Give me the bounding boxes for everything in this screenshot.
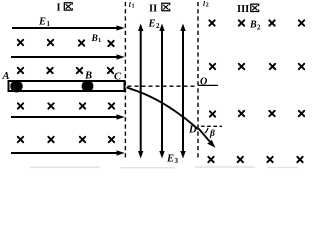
svg-text:C: C xyxy=(114,72,122,83)
svg-text:A: A xyxy=(2,71,10,82)
svg-text:II: II xyxy=(149,3,157,14)
svg-text:B: B xyxy=(249,19,257,30)
svg-text:1: 1 xyxy=(47,20,51,28)
svg-text:1: 1 xyxy=(132,4,135,10)
svg-text:III: III xyxy=(237,4,249,15)
svg-text:β: β xyxy=(209,129,215,139)
svg-text:E: E xyxy=(38,17,46,28)
svg-text:E: E xyxy=(148,18,156,29)
svg-text:B: B xyxy=(91,34,98,44)
svg-text:3: 3 xyxy=(175,157,179,165)
svg-text:O: O xyxy=(200,77,207,88)
svg-text:1: 1 xyxy=(98,37,101,44)
svg-text:E: E xyxy=(166,154,174,165)
svg-text:D: D xyxy=(188,125,197,136)
svg-text:2: 2 xyxy=(156,22,160,30)
svg-text:2: 2 xyxy=(206,3,209,9)
svg-text:2: 2 xyxy=(257,23,261,31)
svg-text:I: I xyxy=(57,3,61,14)
svg-text:B: B xyxy=(84,71,92,82)
